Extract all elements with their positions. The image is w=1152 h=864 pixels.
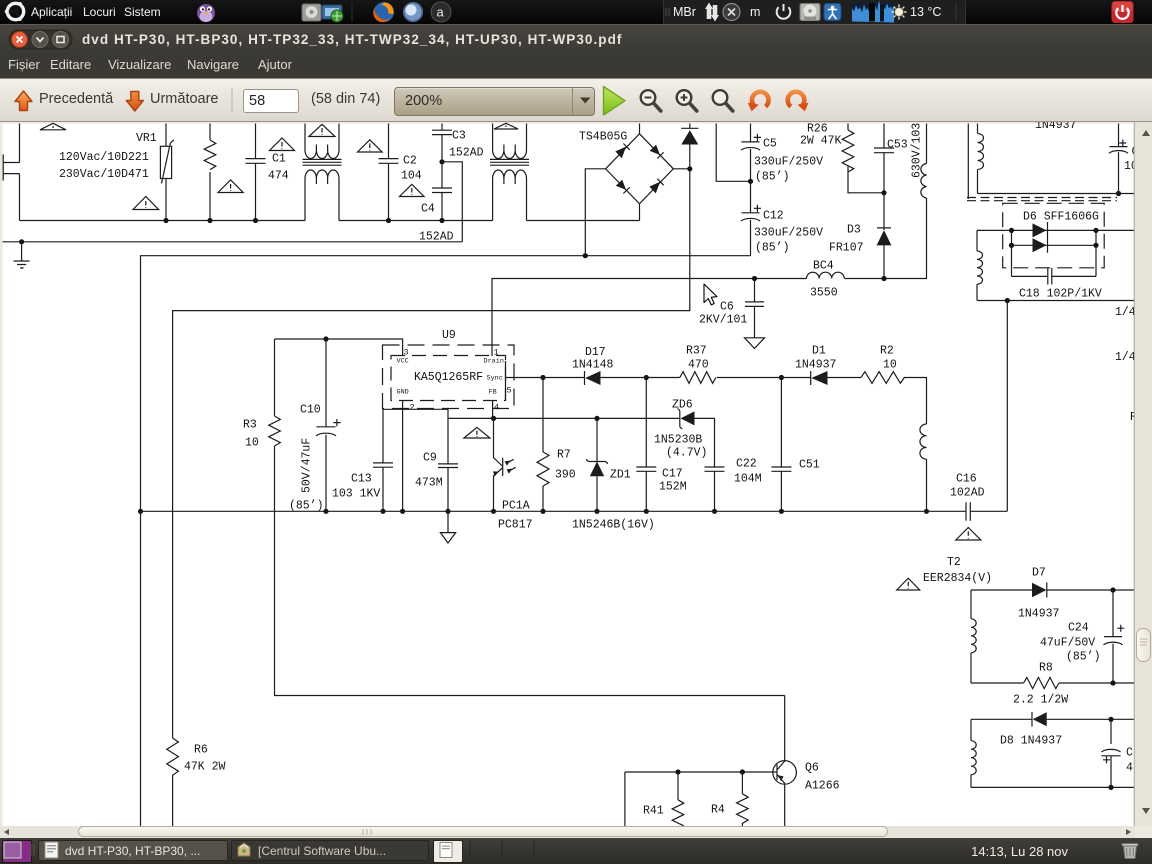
svg-text:C10: C10	[300, 404, 321, 417]
diode D (top, to drain line)	[681, 124, 698, 129]
svg-text:D17: D17	[585, 346, 606, 359]
capacitor C51	[771, 378, 791, 512]
diode module D6 dashed box	[1003, 203, 1104, 267]
resistor R7	[542, 378, 544, 512]
transistor Q6 A1266	[773, 761, 797, 785]
svg-text:473M: 473M	[415, 477, 443, 490]
svg-text:C16: C16	[956, 473, 977, 486]
drive icon	[302, 4, 321, 21]
optocoupler PC1A (phototransistor)	[494, 418, 503, 511]
svg-text:3550: 3550	[810, 287, 838, 300]
svg-text:4: 4	[1126, 762, 1133, 775]
svg-text:C: C	[1126, 747, 1133, 760]
diode D3 FR107	[877, 193, 891, 230]
svg-text:1N4148: 1N4148	[572, 359, 614, 372]
zoom in	[677, 90, 692, 105]
wire gnd row (y409)	[383, 408, 448, 410]
svg-text:(85’): (85’)	[755, 171, 790, 184]
svg-text:1N5246B(16V): 1N5246B(16V)	[572, 519, 655, 532]
svg-text:A1266: A1266	[805, 780, 840, 793]
svg-text:R41: R41	[643, 805, 664, 818]
taskbar	[0, 838, 1152, 864]
svg-text:330uF/250V: 330uF/250V	[754, 227, 823, 240]
choke L2 (common mode)	[490, 124, 529, 221]
svg-text:120Vac/10D221: 120Vac/10D221	[59, 151, 149, 164]
wire Q6 base row	[625, 772, 778, 830]
capacitor C9	[438, 409, 458, 511]
wire lower loop top	[971, 718, 1032, 720]
diode D17	[584, 371, 586, 385]
diode D8	[1031, 712, 1033, 727]
svg-text:C2: C2	[403, 155, 417, 168]
resistor R8	[1024, 677, 1059, 688]
svg-text:FR107: FR107	[829, 242, 864, 255]
capacitor C17	[636, 378, 656, 512]
svg-text:(85’): (85’)	[289, 500, 324, 513]
svg-text:47K 2W: 47K 2W	[184, 761, 226, 774]
svg-text:152AD: 152AD	[419, 231, 454, 244]
down arrow	[126, 92, 143, 112]
capacitor C18	[1012, 268, 1097, 285]
varistor VR1	[165, 124, 167, 221]
trash icon	[1122, 844, 1138, 859]
node on GND rail	[19, 239, 24, 244]
svg-text:ZD1: ZD1	[610, 469, 631, 482]
svg-text:(4.7V): (4.7V)	[666, 447, 707, 460]
capacitor C16 (series in rail)	[966, 502, 1007, 521]
screen+globe icon	[322, 5, 343, 22]
svg-text:C13: C13	[351, 473, 372, 486]
svg-text:C5: C5	[763, 138, 777, 151]
red power button	[1112, 1, 1134, 23]
svg-text:2.2 1/2W: 2.2 1/2W	[1013, 694, 1068, 707]
svg-text:R3: R3	[243, 419, 257, 432]
svg-text:R6: R6	[194, 744, 208, 757]
capacitor C13	[373, 409, 393, 511]
vertical scrollbar	[1135, 122, 1152, 826]
svg-text:C53: C53	[887, 139, 908, 152]
svg-text:470: 470	[688, 359, 709, 372]
wire feedback rail (y256)	[141, 256, 751, 830]
svg-text:10: 10	[1124, 160, 1135, 173]
svg-text:1N5230B: 1N5230B	[654, 434, 702, 447]
resistor R6	[167, 738, 179, 775]
a icon	[431, 2, 451, 22]
bridge diode TL	[615, 147, 626, 159]
inductor BC4	[807, 272, 845, 278]
node bridge right	[687, 166, 692, 171]
wire D6 upper	[977, 230, 1134, 276]
svg-text:1N4937: 1N4937	[1018, 608, 1059, 621]
svg-text:C9: C9	[423, 452, 437, 465]
sun	[892, 5, 907, 20]
search	[713, 90, 728, 105]
circle x	[723, 4, 740, 21]
svg-text:1: 1	[494, 348, 499, 358]
T2 winding (upper loop)	[970, 590, 972, 619]
resistor R (input bleeder)	[209, 124, 211, 221]
warning triangles (top row)	[40, 123, 518, 209]
disk icon2	[800, 4, 820, 21]
svg-text:Sync: Sync	[487, 375, 503, 383]
separators right of buttons	[469, 841, 471, 859]
capacitor C5	[741, 124, 760, 182]
IC U9 KA5Q1265RF outer dashed box	[383, 345, 515, 409]
zener ZD1	[596, 418, 598, 461]
svg-text:10: 10	[883, 359, 897, 372]
svg-text:C4: C4	[421, 203, 435, 216]
play triangle	[604, 87, 626, 116]
capacitor C (lower loop, electrolytic)	[1102, 719, 1121, 787]
capacitor C22	[705, 467, 725, 511]
wire FB row (y418)	[448, 417, 680, 419]
connector J1 (mains plug, cut at page edge)	[3, 155, 19, 181]
svg-text:VR1: VR1	[136, 132, 157, 145]
capacitor C24	[1104, 590, 1123, 683]
svg-text:EER2834(V): EER2834(V)	[923, 572, 992, 585]
ground (open triangle) below C9	[440, 511, 455, 543]
svg-text:C6: C6	[720, 301, 734, 314]
capacitor C4	[432, 162, 452, 221]
workspace mini	[4, 842, 21, 858]
window titlebar	[0, 24, 1152, 52]
svg-text:2KV/101: 2KV/101	[699, 314, 747, 327]
T2 winding (lower loop)	[970, 719, 972, 740]
svg-text:TS4B05G: TS4B05G	[579, 131, 627, 144]
ubuntu logo	[5, 2, 24, 21]
svg-text:R8: R8	[1039, 662, 1053, 675]
wire secondary bottom rail	[977, 300, 1134, 302]
pdf doc icon	[45, 842, 58, 858]
undo	[752, 92, 769, 107]
svg-text:4: 4	[494, 403, 499, 413]
svg-text:152AD: 152AD	[449, 147, 484, 160]
svg-text:PC817: PC817	[498, 519, 533, 532]
mouse cursor	[704, 284, 717, 305]
wire rail GND (y242)	[3, 241, 463, 243]
software center icon	[238, 843, 250, 856]
bridge diode TR	[650, 145, 660, 155]
U9 pin2 GND lead	[402, 401, 404, 512]
svg-text:230Vac/10D471: 230Vac/10D471	[59, 168, 149, 181]
svg-text:47uF/50V: 47uF/50V	[1040, 637, 1095, 650]
capacitor C53	[874, 124, 894, 193]
wire input left vertical	[19, 124, 21, 221]
toolbar	[0, 78, 1152, 122]
node bridge left-rail	[583, 253, 588, 258]
wire base line (y310)	[173, 144, 690, 830]
redo	[788, 92, 805, 107]
resistor R41	[677, 772, 679, 800]
bridge diode BL	[616, 180, 626, 190]
svg-text:R2: R2	[880, 345, 894, 358]
diode D6a	[1033, 223, 1047, 237]
svg-text:D8 1N4937: D8 1N4937	[1000, 735, 1062, 748]
svg-text:2W 47K: 2W 47K	[800, 135, 842, 148]
zoom out	[641, 90, 656, 105]
top GNOME panel	[0, 0, 1152, 24]
svg-text:C3: C3	[452, 130, 466, 143]
pidgin icon	[197, 4, 215, 22]
svg-text:R7: R7	[557, 449, 571, 462]
svg-text:(85’): (85’)	[1066, 651, 1101, 664]
capacitor C12	[741, 181, 760, 255]
grip	[665, 8, 667, 16]
up arrow	[15, 91, 32, 111]
svg-text:VCC: VCC	[397, 358, 409, 366]
svg-text:Drain: Drain	[484, 358, 504, 366]
capacitor C6	[745, 279, 764, 338]
zener ZD6	[677, 409, 682, 429]
svg-text:1/4: 1/4	[1115, 306, 1135, 319]
wire upper loop top	[971, 589, 1032, 591]
svg-text:3: 3	[404, 348, 409, 358]
U9 pin4 FB lead	[492, 401, 494, 419]
svg-text:2: 2	[410, 403, 415, 413]
svg-text:R4: R4	[711, 804, 725, 817]
capacitor C5 branch wire	[716, 124, 750, 182]
wire sync row (y377.5)	[506, 377, 585, 379]
inductor (630V/103 line filter)	[926, 124, 928, 164]
diode D6b	[1033, 238, 1047, 252]
resistor R37	[646, 377, 680, 379]
inductor (output filter)	[920, 424, 927, 459]
svg-text:R37: R37	[686, 345, 707, 358]
combo arrow	[580, 98, 591, 104]
svg-text:U9: U9	[442, 329, 456, 342]
diode D1	[781, 371, 810, 385]
svg-text:C22: C22	[736, 458, 757, 471]
svg-text:103 1KV: 103 1KV	[332, 488, 380, 501]
svg-text:D6 SFF1606G: D6 SFF1606G	[1023, 211, 1099, 224]
horizontal scrollbar	[0, 826, 1135, 838]
ground (chassis, open triangle) below C6	[745, 338, 765, 349]
updown arrows	[705, 3, 719, 22]
warning triangle (near PC1A)	[464, 427, 490, 438]
wire T1 aux output top	[978, 193, 1135, 195]
svg-text:D7: D7	[1032, 567, 1046, 580]
wire R3 to Q6 loop	[275, 511, 785, 695]
svg-text:C51: C51	[799, 459, 820, 472]
small doc icon	[440, 843, 452, 858]
svg-text:1N4937: 1N4937	[795, 359, 836, 372]
svg-text:630V/103: 630V/103	[911, 123, 924, 178]
svg-text:5: 5	[507, 386, 512, 396]
chromium/globe	[403, 2, 423, 22]
wire upper loop bottom	[971, 682, 1024, 684]
resistor R2	[861, 372, 904, 384]
transformer T1 secondary winding	[976, 230, 978, 251]
svg-text:GND: GND	[397, 389, 409, 397]
warning triangle below C16	[956, 528, 981, 541]
IC U9 inner dashed box	[391, 356, 506, 401]
svg-text:Q6: Q6	[805, 762, 819, 775]
wire drain rail (y278)	[492, 279, 927, 357]
choke L1 (common mode)	[303, 124, 342, 221]
svg-text:C1: C1	[272, 153, 286, 166]
svg-text:a: a	[437, 5, 445, 20]
svg-text:104: 104	[401, 170, 422, 183]
transformer T1 core	[967, 198, 1117, 201]
ground (hash)	[14, 242, 30, 268]
svg-text:10: 10	[245, 437, 259, 450]
node C3/C4	[439, 159, 444, 164]
bridge rectifier TS4B05G	[585, 124, 690, 256]
bridge diode BR	[649, 182, 660, 194]
accessibility	[824, 4, 841, 21]
resistor R4	[741, 772, 743, 794]
svg-text:474: 474	[268, 170, 289, 183]
wire C3-C4 branch	[442, 162, 462, 242]
svg-text:D1: D1	[812, 345, 826, 358]
svg-text:ZD6: ZD6	[672, 399, 693, 412]
svg-text:C18 102P/1KV: C18 102P/1KV	[1019, 288, 1102, 301]
power symbol	[777, 4, 791, 19]
svg-text:C24: C24	[1068, 622, 1089, 635]
svg-text:1/4: 1/4	[1115, 351, 1135, 364]
svg-text:KA5Q1265RF: KA5Q1265RF	[414, 371, 483, 384]
svg-text:C17: C17	[662, 468, 683, 481]
svg-text:102AD: 102AD	[950, 487, 985, 500]
separator	[231, 88, 233, 112]
diode D7	[1032, 583, 1047, 597]
wire rail A (input bottom rail)	[20, 220, 640, 222]
system monitor graph	[852, 1, 894, 23]
wire main output rail (y511)	[141, 510, 967, 512]
resistor R26	[848, 124, 884, 193]
capacitor C10 (electrolytic)	[316, 339, 336, 511]
wire VCC feed (y339)	[275, 339, 403, 356]
U9 pin5 sync lead	[505, 361, 508, 401]
capacitor (aux output, cut at page edge)	[1109, 124, 1128, 194]
svg-text:1N4937: 1N4937	[1035, 122, 1076, 132]
svg-text:(85’): (85’)	[755, 242, 790, 255]
resistor R3	[274, 339, 276, 511]
warning triangle (T2)	[897, 578, 920, 590]
svg-text:152M: 152M	[659, 481, 687, 494]
svg-text:D3: D3	[847, 224, 861, 237]
svg-text:FB: FB	[489, 389, 497, 397]
firefox	[373, 2, 394, 22]
wire D6 lower	[1012, 244, 1097, 246]
capacitor C1	[246, 124, 266, 221]
svg-text:C12: C12	[763, 210, 784, 223]
wire right return (to C16 rail)	[1006, 301, 1008, 512]
svg-text:390: 390	[555, 469, 576, 482]
capacitor C3	[432, 124, 452, 162]
svg-text:PC1A: PC1A	[502, 500, 530, 513]
transformer T1 primary winding	[967, 124, 969, 200]
svg-text:50V/47uF: 50V/47uF	[301, 438, 314, 493]
capacitor C2	[379, 124, 399, 221]
svg-text:104M: 104M	[734, 473, 762, 486]
svg-text:330uF/250V: 330uF/250V	[754, 156, 823, 169]
svg-text:BC4: BC4	[813, 260, 834, 273]
wire lower loop bottom	[971, 786, 1134, 788]
svg-text:T2: T2	[947, 556, 961, 569]
